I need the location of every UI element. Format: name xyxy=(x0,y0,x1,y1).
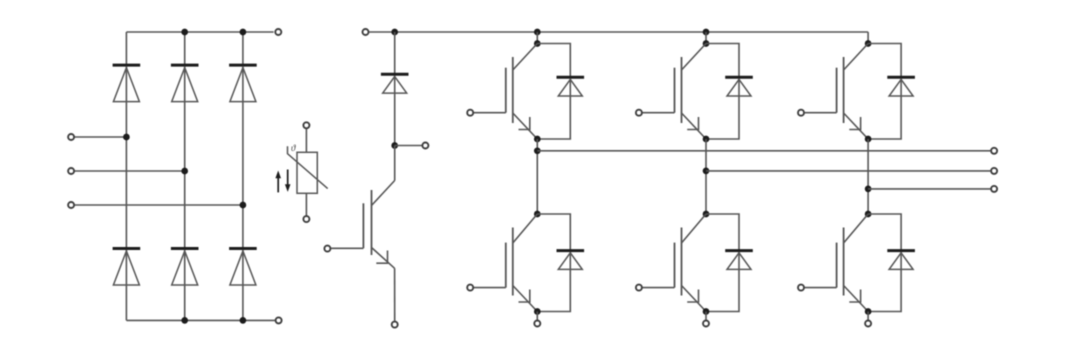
junction chopper rail xyxy=(391,29,398,36)
wire leg 1 bottom diode branch xyxy=(537,214,570,312)
wire leg 2 emitter terminal lead xyxy=(705,312,707,321)
terminal gate Q2 xyxy=(636,110,642,116)
terminal thermistor bottom xyxy=(303,216,309,222)
terminal gate Q5 xyxy=(636,285,642,291)
node leg 2 output tap xyxy=(703,168,710,175)
chopper diode D7 xyxy=(381,74,409,93)
wire rectifier DC- rail xyxy=(126,319,275,321)
IGBT Q6 (bottom leg 3) xyxy=(805,214,869,312)
terminal brake resistor xyxy=(422,143,428,149)
freewheel diode FD1 xyxy=(557,77,585,96)
freewheel diode FD2 xyxy=(725,77,753,96)
freewheel diode FD5 xyxy=(725,251,753,270)
terminal emitter leg 1 xyxy=(534,321,540,327)
wire leg 1 top diode branch xyxy=(537,44,570,140)
junction top rail leg3 xyxy=(240,29,247,36)
wire thermistor top lead xyxy=(305,129,307,152)
thermistor RT1 body xyxy=(297,152,317,193)
node leg 2 phase junction xyxy=(703,136,710,143)
terminal gate Q6 xyxy=(798,285,804,291)
wire leg 3 rail drop xyxy=(867,32,869,44)
node leg 1 collector branch xyxy=(534,40,541,47)
wire phase output line 1 xyxy=(537,150,990,152)
wire leg 1 emitter terminal lead xyxy=(536,312,538,321)
rectifier diode D4 xyxy=(171,249,199,286)
IGBT Q4 (bottom leg 1) xyxy=(474,214,538,312)
node AC phase 3 xyxy=(240,202,247,209)
terminal rectifier DC+ output xyxy=(275,29,281,35)
wire AC input line 1 xyxy=(75,136,127,138)
node leg 3 emitter junction xyxy=(865,308,872,315)
terminal AC input 2 xyxy=(68,168,74,174)
IGBT Q3 (top leg 3) xyxy=(805,44,869,140)
node leg 2 collector branch xyxy=(703,40,710,47)
node AC phase 1 xyxy=(123,134,130,141)
terminal AC input 1 xyxy=(68,134,74,140)
wire rectifier leg 2 vertical xyxy=(184,32,186,320)
wire AC input line 2 xyxy=(75,170,185,172)
node leg 1 lower collector branch xyxy=(534,211,541,218)
freewheel diode FD3 xyxy=(887,77,915,96)
wire rectifier leg 1 vertical xyxy=(125,32,127,320)
terminal AC input 3 xyxy=(68,202,74,208)
terminal gate Q3 xyxy=(798,110,804,116)
wire thermistor bottom lead xyxy=(305,193,307,215)
wire chopper collector drop xyxy=(394,146,396,181)
junction top rail leg2 xyxy=(181,29,188,36)
rectifier diode D2 xyxy=(113,249,141,286)
terminal emitter leg 2 xyxy=(703,321,709,327)
node leg 3 collector branch xyxy=(865,40,872,47)
node leg 3 lower collector branch xyxy=(865,211,872,218)
node leg 2 lower collector branch xyxy=(703,211,710,218)
wire leg 2 phase vertical xyxy=(705,139,707,214)
rectifier diode D5 xyxy=(229,65,257,102)
IGBT Q2 (top leg 2) xyxy=(643,44,707,140)
terminal phase output 2 xyxy=(991,168,997,174)
node leg 1 emitter junction xyxy=(534,308,541,315)
node leg 1 output tap xyxy=(534,147,541,154)
wire phase output line 3 xyxy=(868,188,990,190)
rectifier diode D3 xyxy=(171,65,199,102)
terminal phase output 3 xyxy=(991,186,997,192)
rectifier diode D6 xyxy=(229,249,257,286)
wire brake terminal lead xyxy=(395,145,422,147)
node leg 2 emitter junction xyxy=(703,308,710,315)
wire chopper emitter drop xyxy=(394,268,396,321)
node AC phase 2 xyxy=(181,168,188,175)
wire AC input line 3 xyxy=(75,204,243,206)
freewheel diode FD6 xyxy=(887,251,915,270)
wire leg 1 phase vertical xyxy=(536,139,538,214)
thermistor RT1 diagonal stroke xyxy=(288,146,328,188)
wire leg 3 phase vertical xyxy=(867,139,869,214)
wire rectifier DC+ rail xyxy=(126,31,273,33)
wire rectifier leg 3 vertical xyxy=(242,32,244,320)
junction bottom rail leg2 xyxy=(181,317,188,324)
wire leg 1 rail drop xyxy=(536,32,538,44)
terminal chopper emitter xyxy=(392,322,398,328)
wire leg 3 emitter terminal lead xyxy=(867,312,869,321)
thermistor current arrow down xyxy=(285,170,291,192)
svg-text:ϑ: ϑ xyxy=(291,143,296,153)
terminal thermistor top xyxy=(303,122,309,128)
wire phase output line 2 xyxy=(706,170,990,172)
terminal gate Q4 xyxy=(467,285,473,291)
wire leg 3 top diode branch xyxy=(868,44,901,140)
IGBT Q5 (bottom leg 2) xyxy=(643,214,707,312)
rectifier diode D1 xyxy=(113,65,141,102)
terminal chopper gate xyxy=(324,246,330,252)
wire leg 2 rail drop xyxy=(705,32,707,44)
node leg 1 phase junction xyxy=(534,136,541,143)
node leg 3 output tap xyxy=(865,186,872,193)
wire leg 2 bottom diode branch xyxy=(706,214,739,312)
wire leg 3 bottom diode branch xyxy=(868,214,901,312)
terminal phase output 1 xyxy=(991,148,997,154)
node leg 3 phase junction xyxy=(865,136,872,143)
junction DC+ rail leg 2 xyxy=(703,29,710,36)
chopper IGBT Q7 xyxy=(331,181,395,269)
junction DC+ rail leg 1 xyxy=(534,29,541,36)
node brake output xyxy=(391,142,398,149)
terminal inverter DC+ input xyxy=(363,29,369,35)
freewheel diode FD4 xyxy=(557,251,585,270)
junction bottom rail leg3 xyxy=(240,317,247,324)
wire inverter DC+ rail xyxy=(369,31,868,33)
thermistor current arrow up xyxy=(275,171,281,193)
terminal rectifier DC- output xyxy=(276,317,282,323)
wire leg 2 top diode branch xyxy=(706,44,739,140)
IGBT Q1 (top leg 1) xyxy=(474,44,538,140)
wire chopper upper vertical xyxy=(394,32,396,146)
terminal gate Q1 xyxy=(467,110,473,116)
terminal emitter leg 3 xyxy=(865,321,871,327)
